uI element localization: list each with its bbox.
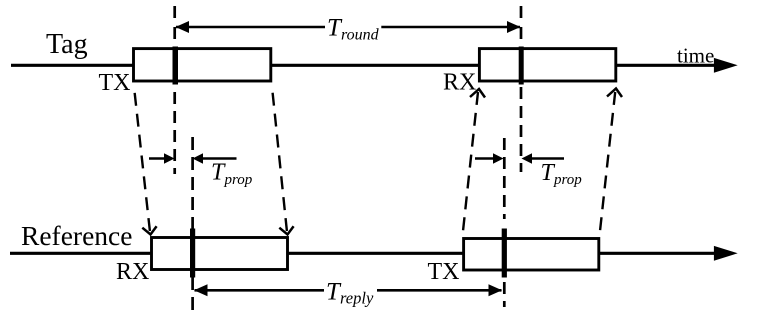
T_round left arrowhead [176,21,190,33]
svg-text:prop: prop [553,172,582,188]
Tag TX timestamp marker [173,47,179,85]
arrowhead of L1 (open V, pointing down) [142,226,156,234]
svg-text:TX: TX [99,70,131,96]
label background for T_round [325,14,381,40]
svg-text:round: round [341,27,380,44]
Reference TX timestamp marker [502,229,507,278]
wire: slanted dashed propagation line L4 (Reference TX right edge to Tag RX right edge) [600,92,615,231]
svg-text:time: time [677,43,714,67]
Tag TX frame box [134,49,271,81]
svg-text:RX: RX [443,69,476,95]
arrowhead of L4 (open V, pointing up) [607,89,622,98]
T_reply right arrowhead [489,284,503,296]
wire: Tag timeline [11,64,716,67]
wire: slanted dashed propagation line L3 (Reference TX left edge to Tag RX left edge) [463,92,478,231]
Tag timeline arrowhead [714,58,738,73]
Reference timeline arrowhead [714,246,738,261]
T_round dimension arrow line [176,26,520,29]
Reference RX timestamp marker [190,229,195,278]
arrowhead of L3 (open V, pointing up) [470,89,485,98]
T_round right arrowhead [507,21,521,33]
dashed marker line A (Tag TX instant, x=174.7) [173,6,176,40]
svg-text:prop: prop [224,172,253,188]
svg-text:RX: RX [116,259,149,285]
Tag RX timestamp marker [519,47,524,85]
wire: slanted dashed propagation line L2 (Tag TX right edge to Reference RX right edge) [272,85,287,231]
T_reply left arrowhead [194,284,208,296]
T_prop right: left-pointing arrow [530,157,564,159]
dashed marker line D (Tag RX instant, x=521) [520,6,523,40]
T_prop right: right-pointing arrow [475,157,495,159]
svg-text:Reference: Reference [21,220,132,251]
Reference RX frame box [152,238,288,270]
dashed marker line B (Reference RX instant, x=192.6) [191,137,194,311]
svg-text:Tag: Tag [46,29,88,60]
T_prop left: left-pointing arrow [201,157,237,159]
wire: Reference timeline [10,252,716,255]
dashed marker line C (Reference TX instant, x=504.3) [503,138,506,219]
label background for T_reply [324,279,377,303]
svg-text:reply: reply [340,289,374,308]
T_prop left: right-pointing arrow [149,157,166,159]
wire: slanted dashed propagation line L1 (Tag TX left edge to Reference RX left edge) [134,85,150,231]
Tag RX frame box [479,49,615,81]
Reference TX frame box [464,239,599,271]
svg-text:TX: TX [428,259,460,285]
T_reply dimension arrow line [195,289,502,292]
arrowhead of L2 (open V, pointing down) [279,226,293,234]
